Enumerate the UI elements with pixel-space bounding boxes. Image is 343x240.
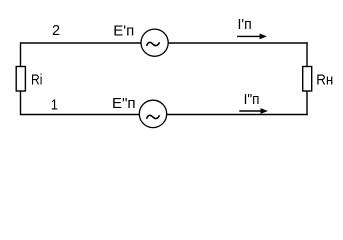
wire bottom-right [167,114,308,116]
resistor Rн [303,67,312,92]
wire right vertical lower [306,91,308,115]
current arrow I"п (bottom) [239,110,261,112]
svg-text:E"п: E"п [112,96,136,112]
svg-text:1: 1 [51,97,58,113]
svg-text:E'п: E'п [113,23,134,39]
sine symbol bottom [147,115,160,119]
source E"п (bottom AC source) [139,100,166,127]
svg-text:Ri: Ri [31,72,42,88]
wire top-left (node 2 branch) [21,42,142,44]
resistor Ri [16,67,25,92]
wire top-right [168,42,308,44]
wire left vertical lower [20,91,22,115]
svg-text:2: 2 [52,23,60,39]
wire bottom-left (node 1 branch) [21,114,140,116]
current arrow I'п (top) [237,35,261,37]
svg-text:Rн: Rн [316,72,333,88]
source E'п (top AC source) [141,29,168,56]
svg-text:I"п: I"п [244,92,260,108]
wire left vertical upper [20,42,22,66]
wire right vertical upper [306,42,308,66]
sine symbol top [147,42,160,46]
svg-text:I'п: I'п [238,17,252,33]
